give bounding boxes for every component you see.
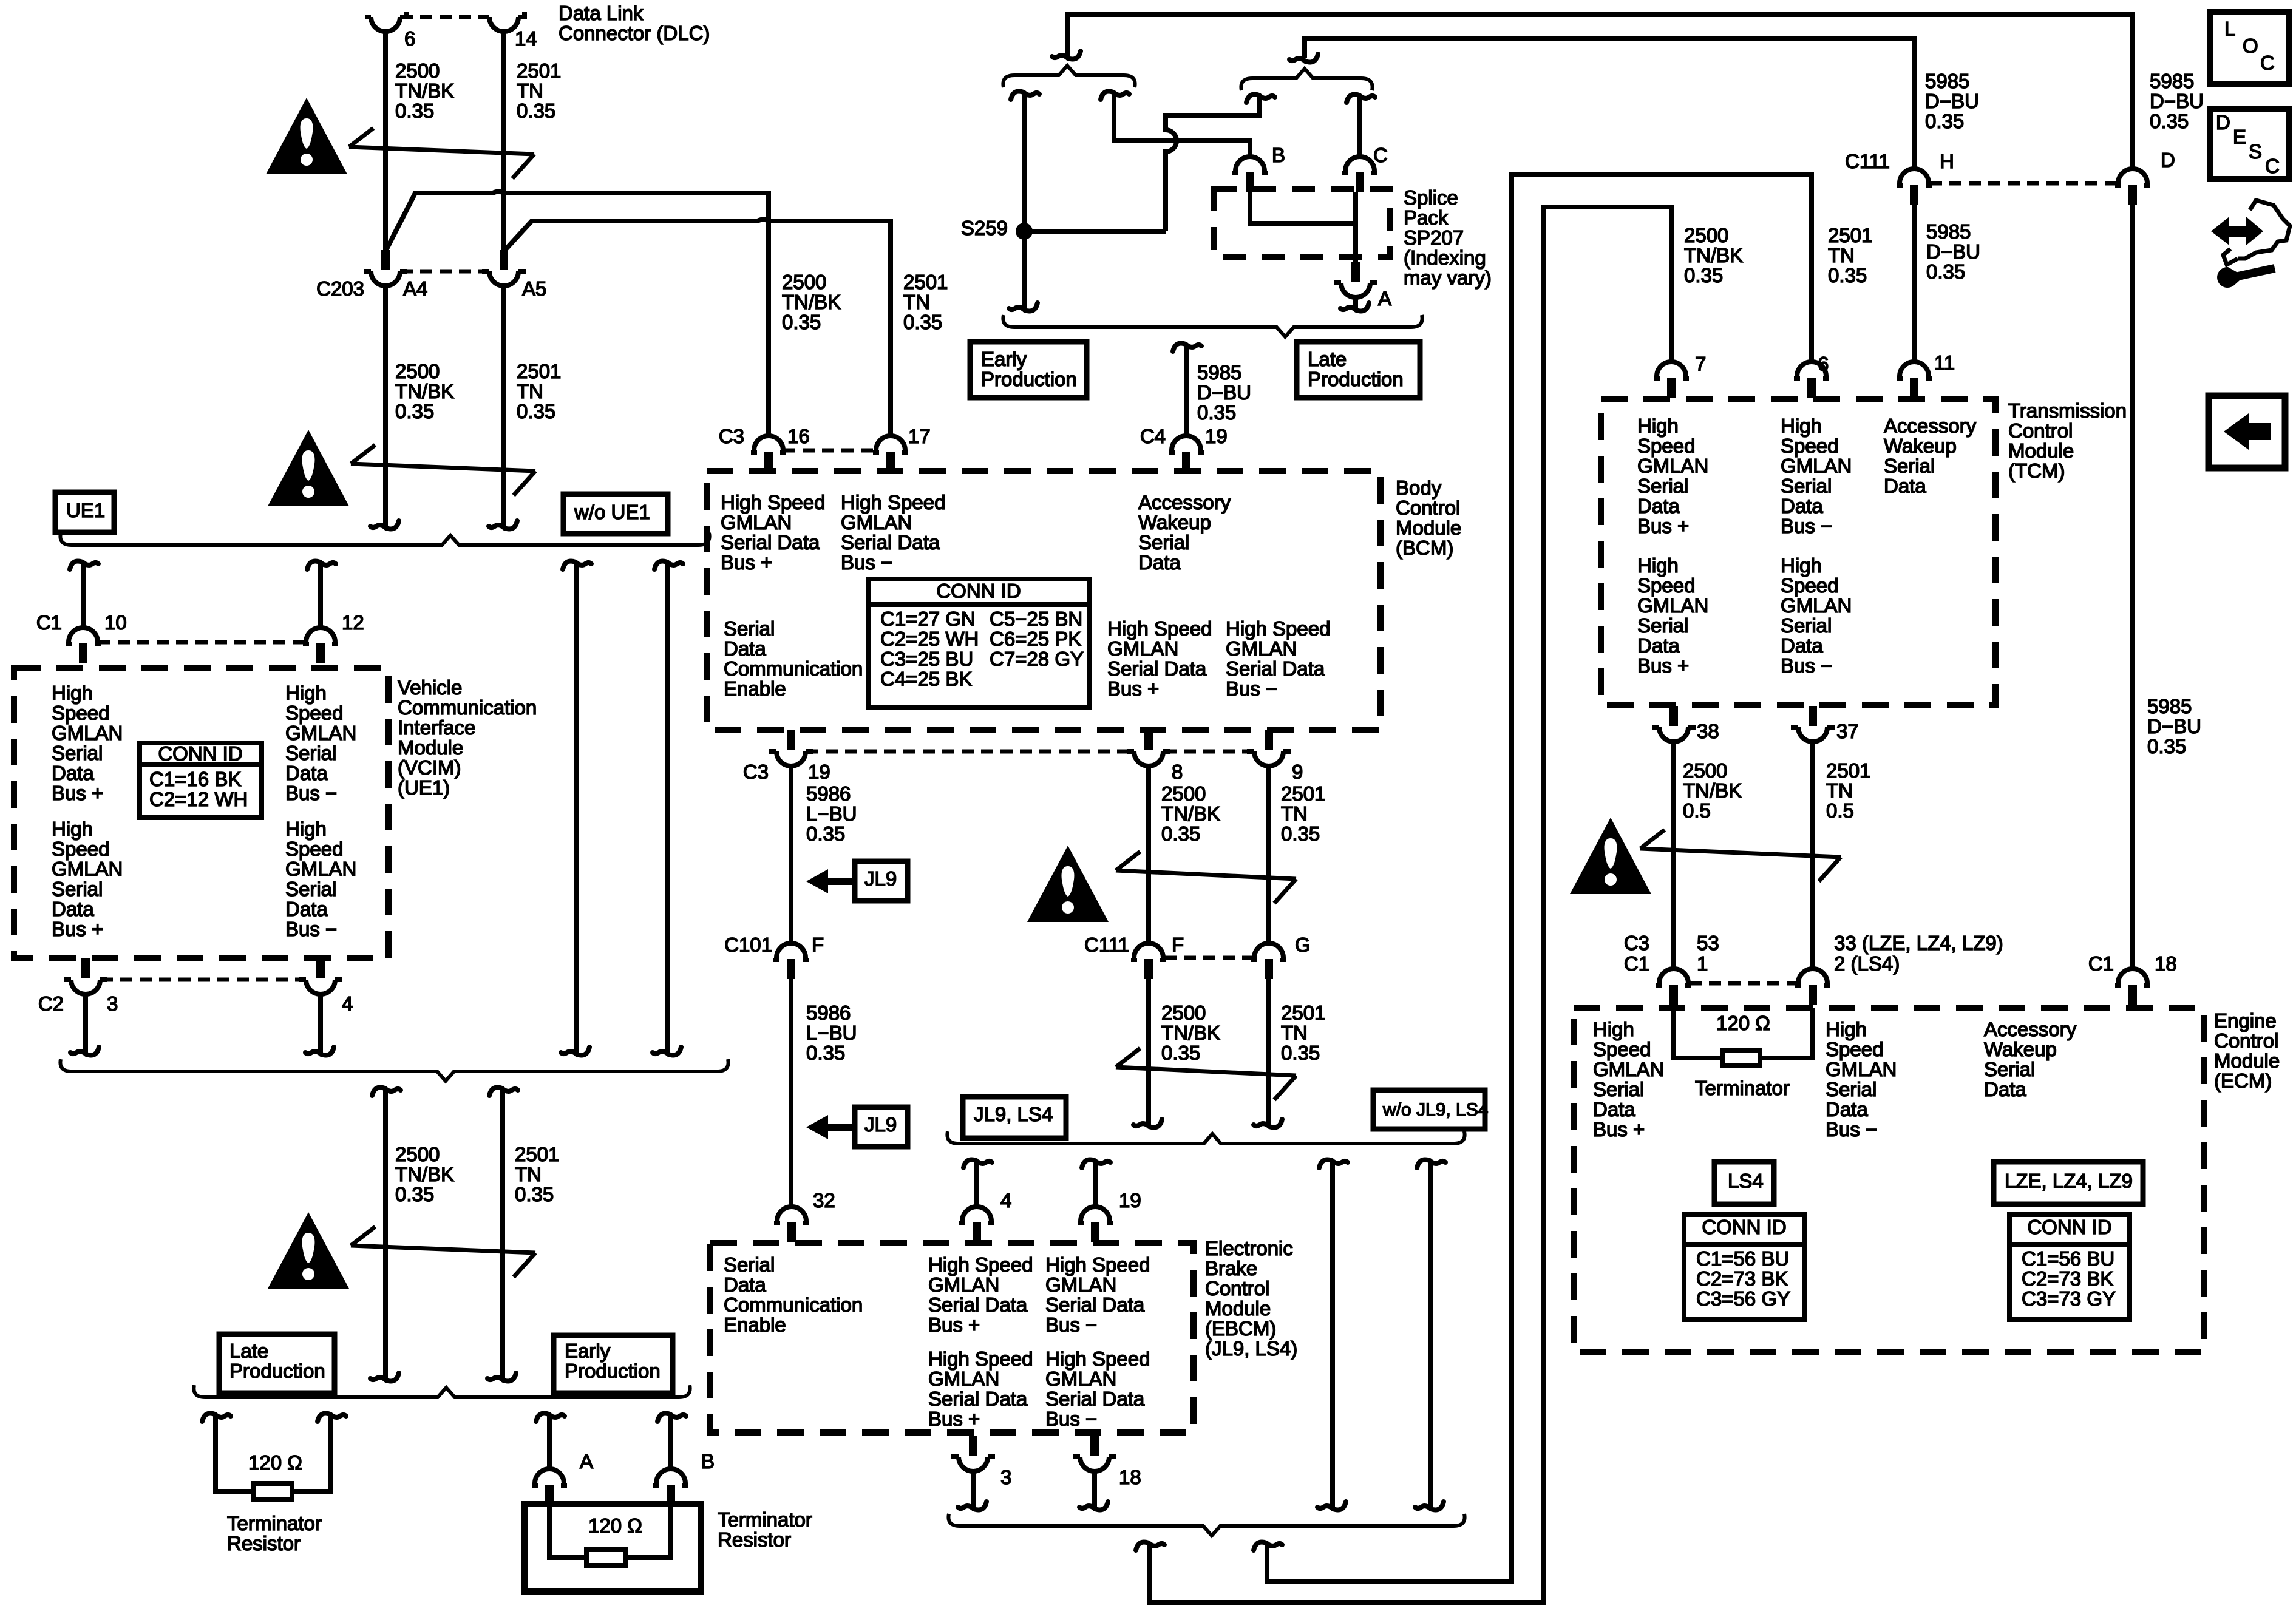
svg-text:0.35: 0.35: [2150, 110, 2189, 132]
wire inside terminator box: [549, 1504, 671, 1558]
hook 5985 to BCM: [1173, 344, 1186, 352]
svg-text:120 Ω: 120 Ω: [588, 1514, 642, 1537]
svg-text:Pack: Pack: [1404, 206, 1449, 229]
svg-text:Bus −: Bus −: [285, 782, 337, 804]
warning arrow 3: [351, 1246, 535, 1253]
svg-text:2500: 2500: [1684, 224, 1728, 246]
wire splice C path: [1357, 97, 1362, 157]
hook loop wire B: [1254, 1542, 1266, 1551]
svg-text:3: 3: [107, 992, 118, 1015]
svg-text:S259: S259: [961, 217, 1008, 239]
svg-text:0.35: 0.35: [517, 400, 555, 422]
warning triangle 5: [1570, 818, 1651, 894]
ECM CONN ID table LZE: [2009, 1215, 2130, 1320]
sidebar LOC box: [2210, 12, 2289, 84]
svg-text:Communication: Communication: [398, 696, 537, 719]
wire to EBCM pin 4: [974, 1162, 979, 1207]
wire end hook 2500 at bus: [386, 521, 399, 529]
svg-text:Serial Data: Serial Data: [721, 531, 820, 554]
svg-text:0.35: 0.35: [1684, 264, 1723, 286]
svg-text:Bus −: Bus −: [1781, 515, 1832, 537]
option box Early Production top: [970, 342, 1087, 398]
bus brace VCIM bottom: [60, 1059, 728, 1081]
svg-text:0.35: 0.35: [517, 100, 555, 122]
svg-text:7: 7: [1695, 353, 1706, 375]
svg-text:2501: 2501: [1826, 759, 1870, 782]
wire end hook line2: [1305, 54, 1318, 63]
warning triangle 4: [1027, 846, 1109, 922]
connector C111 pin G: [1254, 943, 1283, 958]
svg-text:0.35: 0.35: [1281, 1042, 1320, 1064]
svg-text:Module: Module: [2214, 1049, 2280, 1072]
svg-text:C1=56 BU: C1=56 BU: [1696, 1247, 1789, 1270]
svg-text:TN/BK: TN/BK: [1161, 1022, 1220, 1044]
svg-text:0.35: 0.35: [395, 1183, 434, 1205]
svg-text:GMLAN: GMLAN: [1826, 1058, 1897, 1080]
svg-text:TN/BK: TN/BK: [395, 1163, 454, 1185]
svg-text:14: 14: [515, 27, 537, 50]
svg-text:GMLAN: GMLAN: [52, 858, 123, 880]
svg-text:11: 11: [1934, 351, 1955, 374]
svg-text:19: 19: [1205, 425, 1228, 447]
connector TCM pin 37: [1798, 727, 1827, 742]
BCM CONN ID table: [868, 579, 1090, 708]
svg-text:High: High: [1593, 1018, 1634, 1040]
wire EBCM 18 to bus: [1092, 1471, 1097, 1508]
wire brace6 to S259: [1166, 97, 1260, 231]
svg-text:32: 32: [813, 1189, 835, 1212]
wire end hook 2500 at EBCM bus: [1149, 1119, 1162, 1128]
wire branch 2501 to BCM pin17: [504, 220, 891, 435]
svg-text:Data: Data: [285, 898, 328, 920]
wire hook to VCIM 12: [307, 561, 320, 570]
svg-text:High: High: [1637, 415, 1679, 437]
wire to VCIM pin C1-10: [81, 563, 86, 628]
svg-text:Connector (DLC): Connector (DLC): [559, 22, 710, 44]
svg-text:Speed: Speed: [1781, 435, 1838, 457]
svg-text:C: C: [1373, 144, 1388, 166]
svg-text:Bus +: Bus +: [52, 918, 103, 940]
svg-text:Serial: Serial: [1984, 1058, 2035, 1080]
svg-text:Serial Data: Serial Data: [841, 531, 940, 554]
connector C111FG dashed line: [1164, 956, 1253, 960]
svg-text:2501: 2501: [1828, 224, 1872, 246]
svg-text:(VCIM): (VCIM): [398, 756, 461, 779]
module box ECM: [1574, 1008, 2204, 1352]
wire end hook 2501 at term bus: [503, 1373, 516, 1381]
svg-text:2500: 2500: [782, 271, 826, 293]
bus brace EBCM top: [947, 1131, 1464, 1144]
connector C1 dashed line: [98, 640, 305, 645]
svg-text:TN/BK: TN/BK: [395, 80, 454, 102]
svg-text:C203: C203: [316, 277, 364, 300]
svg-text:High Speed: High Speed: [928, 1253, 1033, 1276]
svg-text:C1=16 BK: C1=16 BK: [149, 768, 241, 790]
svg-text:TN: TN: [517, 380, 543, 402]
svg-text:Bus +: Bus +: [52, 782, 103, 804]
connector ECM pin 33/2: [1798, 969, 1827, 983]
svg-text:0.5: 0.5: [1826, 799, 1854, 822]
hook terminator R2: [657, 1414, 670, 1422]
wire 2501 BCM9 to C111G: [1266, 766, 1271, 943]
bus brace VCIM top: [60, 533, 709, 545]
connector VCIM pin C2-3: [71, 980, 100, 994]
svg-text:B: B: [701, 1450, 715, 1473]
wire end hook w/o UE1 right: [668, 1047, 681, 1056]
svg-text:Transmission: Transmission: [2008, 399, 2127, 422]
wire hook to VCIM C1-10: [70, 561, 83, 570]
wire to EBCM pin 19: [1093, 1162, 1098, 1207]
svg-text:Serial: Serial: [1781, 614, 1832, 637]
svg-text:Bus −: Bus −: [1226, 677, 1277, 700]
option box LS4: [1714, 1162, 1774, 1204]
svg-text:Module: Module: [1205, 1297, 1271, 1320]
svg-text:Production: Production: [229, 1360, 325, 1382]
svg-text:High: High: [52, 818, 93, 840]
svg-text:High Speed: High Speed: [1226, 617, 1330, 640]
svg-text:C5−25 BN: C5−25 BN: [990, 608, 1082, 630]
svg-text:Serial: Serial: [1884, 455, 1935, 477]
svg-text:Serial: Serial: [1781, 475, 1832, 497]
svg-text:Serial Data: Serial Data: [928, 1293, 1028, 1316]
svg-text:High Speed: High Speed: [1045, 1347, 1150, 1370]
svg-text:Splice: Splice: [1404, 186, 1458, 209]
wire SP207 internal B: [1250, 192, 1356, 223]
svg-text:Production: Production: [1308, 368, 1404, 390]
svg-text:GMLAN: GMLAN: [721, 511, 792, 534]
connector BCM pin 8: [1134, 751, 1163, 766]
svg-text:UE1: UE1: [66, 499, 105, 521]
svg-text:0.35: 0.35: [1161, 1042, 1200, 1064]
brace early/late top right: [1241, 69, 1372, 90]
connector BCM pin C4-19: [1172, 436, 1201, 450]
svg-text:JL9: JL9: [864, 867, 897, 890]
svg-text:GMLAN: GMLAN: [285, 858, 356, 880]
wire 5986 C101 to EBCM 32: [789, 979, 793, 1207]
svg-text:18: 18: [1119, 1466, 1141, 1488]
svg-text:GMLAN: GMLAN: [285, 722, 356, 744]
svg-text:C2=73 BK: C2=73 BK: [1696, 1267, 1788, 1290]
svg-text:TN/BK: TN/BK: [1161, 802, 1220, 825]
svg-text:CONN ID: CONN ID: [158, 742, 242, 765]
wire 2500 TCM to ECM: [1671, 742, 1676, 969]
connector VCIM pin C1-10: [69, 628, 98, 642]
svg-text:GMLAN: GMLAN: [1045, 1273, 1116, 1296]
svg-text:High Speed: High Speed: [1045, 1253, 1150, 1276]
sidebar back arrow box: [2209, 396, 2285, 468]
svg-text:E: E: [2233, 126, 2246, 148]
svg-text:C101: C101: [724, 934, 772, 956]
svg-text:TN: TN: [1828, 244, 1855, 266]
svg-text:0.35: 0.35: [1926, 260, 1965, 283]
svg-text:Bus −: Bus −: [841, 551, 892, 574]
svg-text:C1=56 BU: C1=56 BU: [2022, 1247, 2114, 1270]
option box JL9 upper: [855, 861, 908, 901]
connector BCM pin 9: [1254, 751, 1283, 766]
svg-text:Serial Data: Serial Data: [1107, 657, 1207, 680]
svg-text:L: L: [2224, 18, 2235, 40]
svg-text:GMLAN: GMLAN: [1637, 594, 1708, 617]
wire to terminator pin A: [547, 1415, 552, 1469]
svg-text:B: B: [1272, 144, 1285, 166]
bus brace EBCM bottom: [948, 1514, 1464, 1536]
svg-text:Serial: Serial: [285, 742, 336, 764]
svg-text:High Speed: High Speed: [721, 491, 825, 514]
svg-text:Serial Data: Serial Data: [1226, 657, 1325, 680]
svg-text:C3=25 BU: C3=25 BU: [880, 648, 973, 670]
svg-text:Data: Data: [1826, 1098, 1868, 1120]
svg-text:Module: Module: [398, 736, 463, 759]
svg-text:5985: 5985: [2150, 70, 2194, 92]
svg-text:Control: Control: [1205, 1277, 1269, 1300]
sidebar DESC box: [2210, 109, 2289, 179]
connector ECM dashed line: [1690, 981, 1797, 986]
svg-text:Terminator: Terminator: [718, 1508, 812, 1531]
svg-text:0.35: 0.35: [903, 311, 942, 333]
wire 2501 C203 to UE1 bus: [501, 286, 506, 527]
svg-text:C2=73 BK: C2=73 BK: [2022, 1267, 2113, 1290]
svg-text:120 Ω: 120 Ω: [248, 1451, 302, 1474]
svg-text:LS4: LS4: [1728, 1170, 1764, 1192]
svg-text:High: High: [1781, 554, 1822, 577]
svg-text:LZE, LZ4, LZ9: LZE, LZ4, LZ9: [2005, 1170, 2133, 1192]
bus brace terminator: [194, 1385, 690, 1397]
wire end hook 2501 at bus: [504, 521, 517, 529]
svg-text:Wakeup: Wakeup: [1984, 1038, 2057, 1060]
svg-text:C2=25 WH: C2=25 WH: [880, 628, 979, 650]
connector TCM pin 6: [1797, 362, 1826, 376]
module box TCM: [1601, 399, 1995, 705]
wire splice B path: [1114, 93, 1250, 157]
warning arrow 5: [1640, 849, 1841, 857]
svg-text:5985: 5985: [1925, 70, 1969, 92]
svg-text:Data: Data: [52, 762, 94, 784]
hook loop wire A: [1136, 1542, 1149, 1551]
svg-text:2500: 2500: [395, 59, 440, 82]
svg-text:2501: 2501: [515, 1143, 559, 1165]
svg-text:Bus +: Bus +: [928, 1314, 980, 1336]
svg-text:GMLAN: GMLAN: [928, 1273, 999, 1296]
warning triangle 3: [268, 1212, 349, 1289]
svg-text:Data: Data: [52, 898, 94, 920]
connector SP207 pin A: [1341, 283, 1370, 297]
svg-text:w/o JL9, LS4: w/o JL9, LS4: [1382, 1100, 1488, 1120]
warning arrow 4b: [1116, 1067, 1296, 1076]
connector DLC pin 6 cup: [371, 17, 400, 32]
wire hook w/o UE1 right: [654, 561, 667, 570]
svg-text:L−BU: L−BU: [806, 802, 857, 825]
svg-text:D−BU: D−BU: [1926, 240, 1980, 263]
svg-text:C111: C111: [1084, 934, 1129, 956]
svg-text:Terminator: Terminator: [1695, 1077, 1790, 1099]
svg-text:JL9: JL9: [864, 1113, 897, 1136]
wire VCIM C2-3 to bus: [83, 994, 88, 1054]
svg-text:GMLAN: GMLAN: [1226, 637, 1297, 660]
wire 2501 to terminator bus: [500, 1090, 505, 1379]
svg-text:Production: Production: [981, 368, 1077, 390]
wire 2500 C111F to bus: [1146, 979, 1151, 1125]
svg-text:Bus −: Bus −: [285, 918, 337, 940]
wire loop outer to TCM 7: [1149, 207, 1671, 1602]
wire 5985 through S259: [1022, 93, 1027, 310]
wire to VCIM pin 12: [318, 563, 323, 628]
option box UE1: [55, 492, 114, 532]
connector ECM pin C3-53/C1-1: [1659, 969, 1688, 983]
svg-text:Data: Data: [1884, 475, 1926, 497]
option box JL9 lower: [855, 1107, 908, 1147]
connector C2 dashed line: [101, 978, 305, 982]
brace early/late bottom: [1003, 315, 1422, 337]
svg-text:C: C: [2265, 155, 2280, 177]
svg-text:C4: C4: [1140, 425, 1166, 447]
module box BCM: [707, 471, 1381, 730]
connector EBCM pin 4: [962, 1207, 991, 1221]
svg-text:C3=73 GY: C3=73 GY: [2022, 1287, 2116, 1310]
hook terminator L2: [318, 1414, 330, 1422]
connector TCM pin 38: [1659, 727, 1688, 742]
svg-text:D−BU: D−BU: [2150, 90, 2204, 112]
svg-text:Data: Data: [724, 1273, 766, 1296]
JL9 arrow lower: [826, 1124, 855, 1131]
svg-text:Late: Late: [229, 1340, 268, 1362]
svg-text:5985: 5985: [1197, 361, 1241, 384]
svg-text:Serial: Serial: [724, 1253, 775, 1276]
svg-text:H: H: [1940, 150, 1954, 172]
wire SP207 A to bus: [1353, 297, 1358, 310]
svg-text:TN: TN: [1281, 802, 1308, 825]
svg-text:19: 19: [1119, 1189, 1141, 1212]
wire VCIM 4 to bus: [318, 994, 323, 1054]
svg-text:High: High: [1781, 415, 1822, 437]
svg-text:Bus +: Bus +: [1107, 677, 1159, 700]
wire loop inner to TCM 6: [1267, 175, 1812, 1581]
wire 2500 C203 to UE1 bus: [383, 286, 388, 527]
svg-text:D: D: [2216, 111, 2230, 134]
svg-text:0.35: 0.35: [782, 311, 821, 333]
connector SP207 pin C: [1345, 157, 1374, 171]
svg-text:JL9, LS4: JL9, LS4: [974, 1103, 1053, 1125]
svg-text:C111: C111: [1845, 150, 1890, 172]
svg-text:Data Link: Data Link: [559, 2, 644, 24]
wire w/o UE1 bus- bypass: [665, 563, 670, 1053]
svg-text:5986: 5986: [806, 1002, 851, 1024]
svg-text:Speed: Speed: [1637, 435, 1695, 457]
svg-text:Interface: Interface: [398, 716, 475, 739]
svg-text:2 (LS4): 2 (LS4): [1834, 952, 1900, 975]
svg-text:Module: Module: [1396, 517, 1461, 539]
warning arrow 1: [349, 147, 534, 154]
connector BCM pin C3-19 bottom: [776, 751, 806, 766]
wire SP207 internal CA: [1353, 192, 1358, 262]
svg-text:Resistor: Resistor: [718, 1528, 791, 1551]
svg-text:Serial: Serial: [1826, 1078, 1877, 1100]
svg-text:TN: TN: [515, 1163, 542, 1185]
connector SP207 pin B: [1235, 157, 1265, 171]
svg-text:Terminator: Terminator: [227, 1512, 322, 1534]
svg-text:9: 9: [1292, 761, 1303, 783]
svg-text:Control: Control: [1396, 497, 1460, 519]
svg-text:Data: Data: [1781, 634, 1823, 657]
svg-text:4: 4: [342, 992, 353, 1015]
svg-text:33 (LZE, LZ4, LZ9): 33 (LZE, LZ4, LZ9): [1834, 932, 2003, 954]
svg-text:Resistor: Resistor: [227, 1532, 301, 1554]
svg-text:0.35: 0.35: [1828, 264, 1867, 286]
svg-text:Engine: Engine: [2214, 1009, 2277, 1032]
svg-text:5986: 5986: [806, 782, 851, 805]
wire EBCM 3 to bus: [971, 1471, 976, 1508]
terminator resistor box: [525, 1504, 701, 1592]
warning arrow 2: [351, 464, 535, 471]
svg-text:(JL9, LS4): (JL9, LS4): [1205, 1337, 1297, 1360]
svg-text:0.35: 0.35: [1281, 822, 1320, 845]
svg-text:0.35: 0.35: [1161, 822, 1200, 845]
svg-text:F: F: [812, 934, 824, 956]
svg-text:GMLAN: GMLAN: [1781, 455, 1852, 477]
svg-text:GMLAN: GMLAN: [1593, 1058, 1664, 1080]
svg-text:10: 10: [104, 611, 127, 634]
svg-text:C4=25 BK: C4=25 BK: [880, 668, 972, 690]
svg-text:Bus +: Bus +: [1637, 654, 1689, 677]
svg-text:Speed: Speed: [1781, 574, 1838, 597]
svg-text:TN/BK: TN/BK: [1684, 244, 1743, 266]
svg-text:S: S: [2249, 140, 2262, 163]
connector C101/C111 dashed line: [806, 750, 1133, 754]
svg-text:Module: Module: [2008, 439, 2074, 462]
svg-text:Data: Data: [724, 637, 766, 660]
connector C203 pin A5: [489, 271, 518, 286]
wire 5985 D to ECM: [2130, 205, 2135, 969]
wire hook 2500 below: [372, 1088, 385, 1096]
svg-text:0.35: 0.35: [395, 400, 434, 422]
warning arrow 4a: [1116, 870, 1296, 879]
svg-text:Serial: Serial: [724, 617, 775, 640]
wire end hook line1: [1068, 51, 1081, 59]
svg-text:Bus +: Bus +: [928, 1408, 980, 1430]
svg-text:GMLAN: GMLAN: [1107, 637, 1178, 660]
svg-text:Enable: Enable: [724, 677, 786, 700]
svg-text:C3: C3: [719, 425, 744, 447]
splice S259 dot: [1016, 223, 1033, 240]
wire hook w/o UE1 left: [563, 561, 576, 570]
svg-text:4: 4: [1000, 1189, 1011, 1212]
svg-text:Speed: Speed: [285, 702, 343, 724]
svg-text:C1=27 GN: C1=27 GN: [880, 608, 976, 630]
connector EBCM pin 3: [959, 1457, 988, 1471]
svg-text:Serial Data: Serial Data: [1045, 1388, 1145, 1410]
svg-text:Late: Late: [1308, 348, 1347, 370]
svg-text:6: 6: [1818, 353, 1829, 375]
connector terminator pin A: [535, 1469, 564, 1483]
connector terminator pin B: [656, 1469, 685, 1483]
connector BCM pin 17: [876, 436, 905, 450]
svg-text:12: 12: [342, 611, 364, 634]
wire end hook C2-3: [86, 1047, 99, 1056]
svg-text:37: 37: [1836, 720, 1859, 742]
svg-text:D−BU: D−BU: [2147, 715, 2201, 737]
svg-text:High: High: [285, 682, 327, 704]
svg-text:Speed: Speed: [1593, 1038, 1651, 1060]
svg-text:Accessory: Accessory: [1884, 415, 1977, 437]
connector VCIM pin 4: [306, 980, 335, 994]
wire w/o JL9 bypass B: [1428, 1162, 1433, 1508]
wire end hook 4: [321, 1047, 334, 1056]
svg-text:Communication: Communication: [724, 657, 863, 680]
bus line 2 to C111 H: [1305, 38, 1914, 169]
svg-text:A: A: [580, 1450, 593, 1473]
svg-text:0.35: 0.35: [1197, 401, 1236, 424]
svg-text:0.35: 0.35: [806, 822, 845, 845]
splice pack SP207 dashed box: [1214, 189, 1390, 257]
